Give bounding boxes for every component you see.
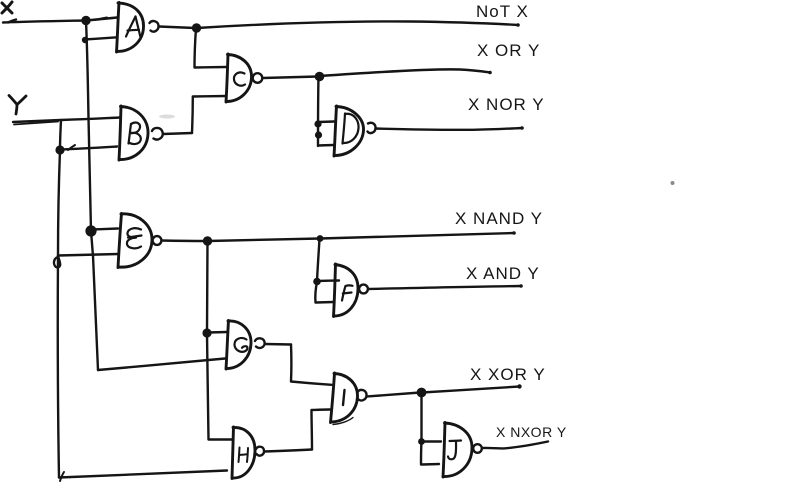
nand gate D [334,106,364,156]
wire X NXOR Y output [482,442,548,449]
label G [235,338,248,352]
wire J input bracket [421,442,439,465]
node B input dot [55,145,64,154]
nand gate B [119,106,148,160]
wire corner tick [60,472,64,481]
wire C output to D inputs vertical [317,77,320,146]
bubble G [255,338,265,348]
wire Y input [13,118,120,123]
bubble D [368,123,376,133]
smudge artifact [159,115,175,119]
nand gate I [331,373,358,425]
input label Y [9,96,26,115]
wire F top input stub [317,279,339,282]
wire X NAND Y output [208,233,514,241]
wire to F inputs vertical [317,239,320,281]
wire E output [162,239,207,242]
nand gate F [334,264,359,317]
wire Y second stroke [14,122,58,125]
wire tick on stub [68,145,75,150]
wire J top input stub [422,440,442,442]
wire Y vertical bus [58,120,61,478]
node E output junction [203,236,212,245]
node A input dot [82,37,88,43]
wire X to A top input [86,18,117,21]
node J input blob [418,438,425,445]
wire tick on X wire [97,18,107,20]
label H [239,448,249,463]
wire H output jog up to I bottom input [312,410,331,450]
bubble H [256,447,264,456]
nand gate E [118,214,152,268]
wire X AND Y output [368,286,521,289]
node G top input dot [202,328,211,337]
wire X input [3,21,85,23]
wire X NOR Y output [376,128,523,130]
node F input dot [313,278,321,286]
wire A output to C top input [195,29,227,68]
svg-text:X XOR Y: X XOR Y [470,365,546,384]
bubble I [358,390,367,401]
wire G output [265,343,291,346]
wire Y bus to H bottom input [59,471,227,478]
svg-text:NoT X: NoT X [476,2,529,21]
nand gate G [226,321,251,370]
node C output junction [315,72,325,82]
node E top input blob [85,225,96,236]
svg-text:X NXOR Y: X NXOR Y [496,424,567,440]
wire G top input stub [207,331,227,334]
wire F input bracket [315,282,333,303]
wire X OR Y output [320,69,490,76]
bubble F [359,285,368,294]
bubble A [150,21,159,32]
bubble C [253,73,263,83]
wire A bottom input stub [84,37,117,39]
wire G output jog down to I top input [291,345,332,385]
wire D bottom input stub [318,144,334,147]
wire B output to C bottom input [192,96,227,133]
wire E bottom input [58,254,118,256]
label A [126,17,140,37]
wire B bottom input stub [60,147,117,150]
wire NOT X output [197,21,518,28]
wire B output [163,133,192,134]
node A output junction [192,23,201,32]
svg-text:X NAND Y: X NAND Y [455,209,543,228]
label I [343,390,345,405]
label B [129,123,141,144]
node E bottom loop [54,256,60,267]
svg-text:X AND Y: X AND Y [466,264,540,283]
nand gate C [226,54,252,102]
label C [234,72,245,85]
label D [343,114,359,144]
label F [342,285,353,300]
wire A output [159,27,195,29]
node X junction [81,16,90,25]
nand gate A [117,3,144,53]
node D input dot 2 [315,131,322,138]
node NAND junction [317,235,324,242]
label J [448,441,461,460]
speck artifact [671,181,675,185]
wire X bus to G bottom input [98,359,225,371]
svg-text:X OR Y: X OR Y [477,41,540,60]
node D input dot 1 [314,120,321,127]
wire E top input stub [91,229,118,230]
wire X vertical bus [86,21,98,370]
nand gate J [443,423,472,478]
wire X hook [8,20,16,23]
nand gate H [232,427,255,479]
label E [127,228,142,248]
wire X XOR Y output [422,387,520,393]
wire D top input stub [318,120,334,123]
bubble E [153,236,162,245]
wire I output vertical to J [420,393,422,441]
wire H output [265,450,313,452]
wire I output [367,393,420,397]
node I output junction [417,388,427,398]
bubble B [152,128,163,140]
wire C output [263,77,319,79]
bubble J [473,444,482,453]
svg-text:X NOR Y: X NOR Y [468,95,545,114]
wire E output vertical to G and H [207,242,232,440]
input label X [2,2,12,13]
